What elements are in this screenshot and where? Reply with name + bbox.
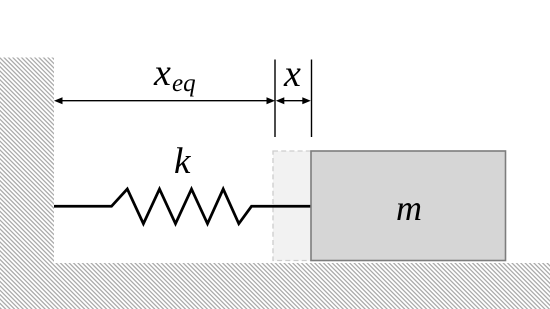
svg-text:eq: eq	[172, 70, 196, 97]
dimension arrow x (equilibrium to mass)	[276, 97, 311, 104]
svg-text:x: x	[283, 53, 301, 95]
extension tick line at mass left edge	[311, 60, 313, 138]
wall (hatched, left)	[0, 58, 54, 264]
extension tick line at equilibrium position	[274, 60, 276, 138]
svg-text:k: k	[174, 141, 191, 182]
equilibrium ghost box (dashed outline)	[273, 151, 313, 261]
mass block m	[311, 151, 506, 261]
floor (hatched, bottom)	[0, 263, 550, 309]
dimension arrow x_eq (wall to equilibrium)	[54, 97, 275, 104]
spring k (zigzag)	[54, 189, 311, 224]
svg-text:m: m	[396, 188, 422, 228]
svg-text:x: x	[153, 52, 171, 94]
